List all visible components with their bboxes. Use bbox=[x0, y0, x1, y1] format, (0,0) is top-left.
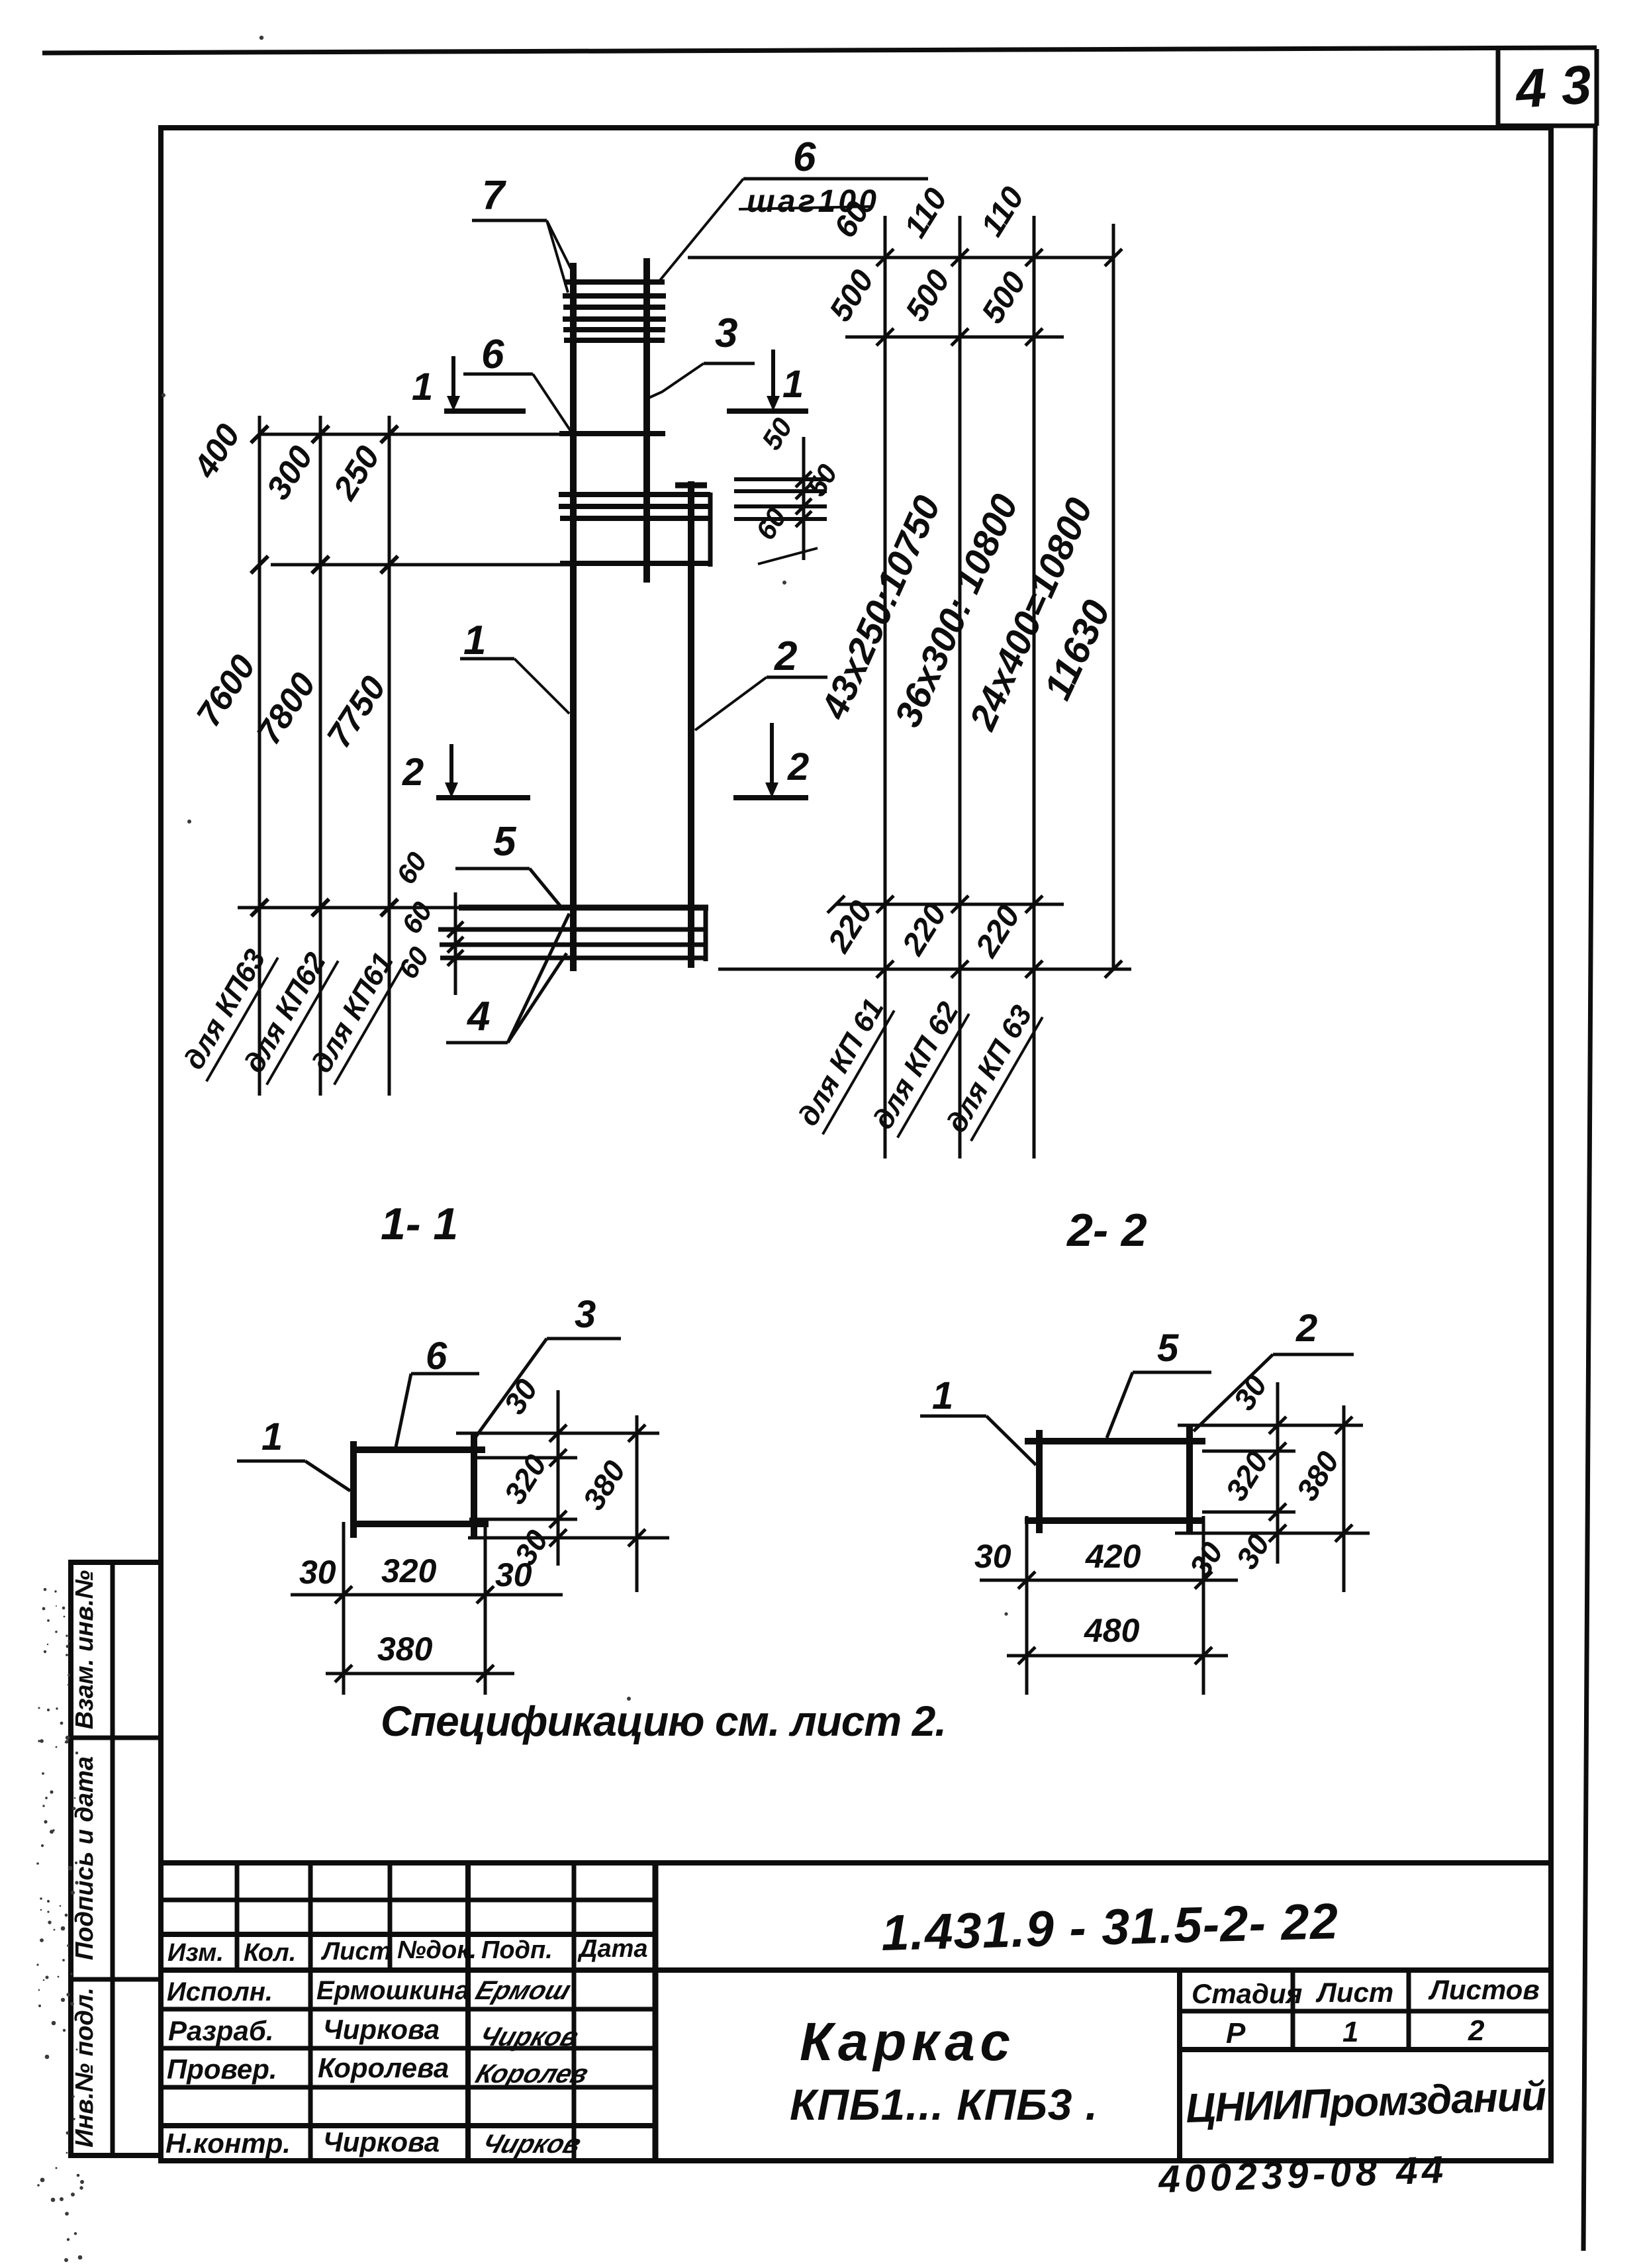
svg-text:Р: Р bbox=[1226, 2017, 1246, 2050]
s11 label 6 leader bbox=[396, 1374, 411, 1447]
label 3 leader bbox=[649, 363, 704, 398]
top stirrup 3 bbox=[563, 305, 665, 310]
label 4 underline bbox=[446, 1041, 508, 1045]
label 4 leader a bbox=[508, 914, 569, 1043]
svg-text:7: 7 bbox=[482, 173, 506, 218]
strip divider 1 bbox=[71, 1736, 161, 1740]
label 5 leader bbox=[530, 869, 560, 906]
s11 left bar bbox=[350, 1441, 357, 1538]
s11 ext right bbox=[484, 1522, 487, 1695]
row line 6 bbox=[161, 2085, 655, 2090]
top stirrup 1 bbox=[564, 279, 665, 285]
ELEVATION DRAWING bbox=[402, 134, 928, 971]
svg-text:Лист: Лист bbox=[1315, 1977, 1393, 2008]
underline dlya kp62 bbox=[267, 961, 338, 1084]
s22 top chord bbox=[1025, 1438, 1205, 1444]
dim vertical a bbox=[258, 416, 261, 1096]
s11 label 1 leader bbox=[305, 1461, 350, 1491]
ticks bottom long bbox=[876, 961, 894, 978]
s22 ticks 420 bbox=[1018, 1572, 1212, 1589]
bar 2 top hook cap bbox=[675, 483, 707, 489]
s22 ext left bbox=[1025, 1516, 1029, 1695]
svg-text:380: 380 bbox=[377, 1630, 433, 1668]
label 6 top underline bbox=[743, 177, 928, 181]
row line 7 bbox=[161, 2123, 655, 2128]
label 2 leader bbox=[695, 677, 767, 730]
s11 dim vertical in bbox=[557, 1390, 560, 1566]
dim vertical c bbox=[388, 416, 391, 1096]
label 7 leader a bbox=[547, 220, 573, 273]
splice bar a bbox=[559, 492, 710, 497]
col data end bbox=[653, 1863, 659, 2161]
splice dim vertical bbox=[802, 437, 806, 560]
splice bar d bbox=[560, 561, 710, 566]
svg-text:Провер.: Провер. bbox=[167, 2054, 277, 2085]
svg-text:4 3: 4 3 bbox=[1513, 54, 1593, 120]
splice free end 1 bbox=[734, 477, 827, 481]
TITLE BLOCK bbox=[161, 1863, 1551, 2201]
svg-text:2: 2 bbox=[774, 634, 797, 679]
svg-text:1: 1 bbox=[412, 365, 433, 408]
row line 5 bbox=[161, 2046, 655, 2051]
s11 label 3 underline bbox=[547, 1337, 621, 1341]
s11 top chord bbox=[351, 1446, 485, 1453]
svg-text:1- 1: 1- 1 bbox=[381, 1199, 458, 1249]
underline dlya kp61 r bbox=[823, 1010, 894, 1134]
svg-text:Королев: Королев bbox=[472, 2059, 592, 2089]
svg-text:2- 2: 2- 2 bbox=[1066, 1204, 1147, 1256]
col podp bbox=[572, 1863, 577, 2161]
bar 2 lower chord bbox=[688, 481, 694, 968]
label 2 underline bbox=[767, 676, 827, 679]
svg-text:№док.: №док. bbox=[397, 1936, 477, 1964]
svg-text:1: 1 bbox=[463, 618, 486, 663]
section mark 1 right line bbox=[727, 408, 808, 414]
svg-text:Спецификацию см. лист 2.: Спецификацию см. лист 2. bbox=[381, 1697, 947, 1745]
s11 label 1 underline bbox=[237, 1460, 305, 1463]
svg-text:320: 320 bbox=[381, 1552, 437, 1589]
s22 dim line 480 bbox=[1007, 1654, 1228, 1658]
s22 dim vertical in bbox=[1276, 1382, 1280, 1564]
s11 bottom chord bbox=[351, 1521, 489, 1527]
top rule bbox=[42, 48, 1597, 53]
svg-text:Подп.: Подп. bbox=[481, 1936, 553, 1964]
svg-text:Инв.№ подл.: Инв.№ подл. bbox=[71, 1987, 99, 2148]
dim vertical r2 bbox=[959, 216, 962, 1158]
underline dlya kp63 r bbox=[971, 1017, 1043, 1141]
underline dlya kp62 r bbox=[898, 1014, 969, 1137]
splice right end stub bbox=[708, 493, 713, 567]
svg-text:3: 3 bbox=[715, 310, 737, 356]
splice free end 4 bbox=[734, 517, 827, 521]
s22 label 5 leader bbox=[1107, 1372, 1133, 1438]
underline dlya kp61 bbox=[334, 961, 406, 1084]
svg-text:420: 420 bbox=[1085, 1538, 1141, 1575]
label 5 underline bbox=[455, 867, 530, 871]
svg-text:30: 30 bbox=[495, 1556, 532, 1593]
s22 ticks 480 bbox=[1018, 1647, 1212, 1664]
dim vertical b bbox=[319, 416, 322, 1096]
bottom hook bar 1 bbox=[459, 905, 708, 911]
s22 bottom chord bbox=[1025, 1517, 1202, 1524]
s11 dim 320b bbox=[469, 1518, 577, 1521]
bottom hook bar 2 bbox=[438, 927, 706, 932]
dim vertical r3 bbox=[1033, 216, 1036, 1158]
col kol bbox=[308, 1863, 313, 2161]
splice free end 2 bbox=[734, 489, 827, 493]
s22 dim line 420 bbox=[980, 1579, 1238, 1582]
stadia col bbox=[1291, 1970, 1295, 2050]
svg-text:30: 30 bbox=[299, 1554, 336, 1591]
svg-text:Кол.: Кол. bbox=[244, 1939, 296, 1967]
row line 3 full width bbox=[161, 1967, 1551, 1973]
svg-text:Изм.: Изм. bbox=[167, 1939, 224, 1967]
s11 dim 30 bbox=[477, 1456, 577, 1460]
dim line mid bbox=[271, 563, 576, 567]
svg-text:Подпись и дата: Подпись и дата bbox=[71, 1756, 99, 1960]
s11 ticks 380 bbox=[335, 1665, 494, 1682]
svg-text:Дата: Дата bbox=[577, 1935, 648, 1963]
svg-text:480: 480 bbox=[1084, 1612, 1140, 1649]
svg-text:Чиркова: Чиркова bbox=[323, 2014, 440, 2045]
col list bbox=[388, 1863, 393, 1970]
svg-text:2: 2 bbox=[1295, 1307, 1317, 1350]
small dim vertical 60s bbox=[454, 892, 457, 995]
outer right border bbox=[1583, 126, 1595, 2251]
splice bar c bbox=[560, 516, 710, 521]
section mark 2 left line bbox=[436, 795, 530, 800]
row line 1 bbox=[161, 1898, 655, 1903]
LEFT DIMENSIONS bbox=[177, 416, 576, 1096]
svg-text:Чирков: Чирков bbox=[476, 2022, 583, 2052]
section mark 1 left line bbox=[444, 408, 526, 414]
svg-text:2: 2 bbox=[787, 745, 809, 788]
s11 dim line 380 bbox=[326, 1672, 514, 1676]
sheet number box 43 bbox=[1496, 50, 1501, 126]
s22 label 1 leader bbox=[986, 1416, 1036, 1465]
top stirrup 5 bbox=[563, 327, 665, 332]
s22 dim 30 bbox=[1202, 1450, 1295, 1453]
s22 label 2 underline bbox=[1273, 1353, 1354, 1356]
svg-text:Исполн.: Исполн. bbox=[167, 1977, 273, 2007]
s22 label 2 leader bbox=[1194, 1354, 1273, 1431]
top stirrup 4 bbox=[563, 316, 666, 322]
row line 4 bbox=[161, 2007, 655, 2012]
shag 100 text underline bbox=[739, 207, 871, 209]
svg-text:5: 5 bbox=[493, 819, 517, 865]
LEFT STRIP bbox=[71, 1562, 161, 2155]
splice free end 3 bbox=[734, 504, 827, 508]
svg-text:КПБ1... КПБ3 .: КПБ1... КПБ3 . bbox=[790, 2080, 1098, 2129]
ticks mid bbox=[251, 556, 268, 573]
col ndok bbox=[465, 1863, 471, 2161]
svg-text:Ермошкина: Ермошкина bbox=[316, 1976, 469, 2005]
ticks top short bbox=[876, 328, 894, 346]
scan speckle noise bbox=[36, 36, 1008, 2262]
SECTION 2-2 bbox=[920, 1204, 1370, 1695]
svg-text:1.431.9 - 31.5-2- 22: 1.431.9 - 31.5-2- 22 bbox=[880, 1893, 1338, 1961]
svg-text:2: 2 bbox=[402, 751, 424, 794]
top stirrup 6 bbox=[564, 338, 665, 343]
svg-text:Чиркова: Чиркова bbox=[323, 2126, 440, 2157]
s11 label 6 underline bbox=[411, 1372, 479, 1376]
dim line top long bbox=[688, 256, 1113, 260]
s11 dim vertical out bbox=[635, 1415, 639, 1592]
label 7 underline bbox=[472, 219, 547, 222]
s22 right bar bbox=[1186, 1425, 1193, 1533]
splice ticks bbox=[796, 471, 812, 527]
svg-text:Ермош: Ермош bbox=[472, 1975, 575, 2005]
label 6 mid leader bbox=[533, 374, 572, 433]
s11 right bar bbox=[471, 1433, 477, 1538]
col izm bbox=[235, 1863, 240, 1970]
dim vertical r4 bbox=[1112, 224, 1115, 969]
svg-text:4: 4 bbox=[466, 994, 490, 1039]
section mark 2 right line bbox=[733, 795, 808, 800]
s22 ext right bbox=[1202, 1516, 1205, 1695]
NOTES bbox=[381, 1697, 947, 1745]
splice label underline bbox=[758, 548, 818, 564]
list col bbox=[1407, 1970, 1411, 2050]
svg-text:Стадия: Стадия bbox=[1192, 1978, 1302, 2009]
RIGHT DIMENSIONS bbox=[688, 181, 1131, 1158]
strip divider 2 bbox=[71, 1977, 161, 1982]
svg-text:Листов: Листов bbox=[1428, 1974, 1540, 2005]
dim vertical r1 bbox=[884, 216, 887, 1158]
section mark 2 left arrow bbox=[449, 744, 453, 784]
bottom hook right stub bbox=[704, 908, 708, 961]
ticks top long bbox=[827, 249, 1122, 978]
svg-text:6: 6 bbox=[481, 332, 504, 377]
dim line top bbox=[259, 433, 570, 436]
svg-text:3: 3 bbox=[575, 1293, 596, 1336]
s22 label 1 underline bbox=[920, 1415, 986, 1418]
s11 ticks 320 bbox=[335, 1586, 494, 1603]
svg-text:1: 1 bbox=[261, 1415, 283, 1458]
s22 dim vertical out bbox=[1342, 1405, 1346, 1592]
section mark 2 right arrow bbox=[770, 723, 774, 784]
stadia value line bbox=[1180, 2047, 1551, 2052]
svg-text:6: 6 bbox=[793, 134, 816, 180]
s22 dim 320b bbox=[1202, 1511, 1295, 1514]
s22 dim bottom bbox=[1175, 1532, 1370, 1535]
s22 ticks bbox=[1269, 1417, 1352, 1542]
strip inner vertical bbox=[111, 1562, 115, 2155]
ticks bottom bbox=[251, 899, 268, 916]
SECTION 1-1 bbox=[237, 1199, 669, 1695]
label 7 leader b bbox=[547, 220, 568, 293]
label 6 mid underline bbox=[463, 373, 533, 376]
svg-text:Лист: Лист bbox=[320, 1938, 391, 1965]
dim line top short bbox=[845, 336, 1064, 339]
ticks top bbox=[251, 426, 398, 916]
s11 dim top bbox=[456, 1432, 659, 1435]
dim line bottom short bbox=[836, 903, 1064, 906]
s11 dim line 320 bbox=[291, 1593, 563, 1597]
dim line bottom long bbox=[718, 968, 1131, 971]
ticks bottom short bbox=[827, 896, 845, 913]
label 1 leader bbox=[514, 659, 569, 714]
svg-text:Разраб.: Разраб. bbox=[168, 2015, 274, 2046]
section mark 1 left arrow bbox=[451, 356, 455, 397]
tie at section 1 level bbox=[559, 431, 665, 436]
svg-text:1: 1 bbox=[1342, 2016, 1358, 2048]
bottom hook bar 4 bbox=[440, 956, 706, 961]
label 4 leader b bbox=[508, 953, 567, 1043]
svg-text:1: 1 bbox=[782, 363, 804, 406]
top stirrup 2 bbox=[563, 293, 666, 299]
divider name cell bbox=[1177, 1970, 1182, 2161]
svg-text:1: 1 bbox=[932, 1374, 953, 1417]
svg-text:30: 30 bbox=[974, 1538, 1011, 1575]
svg-text:Чирков: Чирков bbox=[479, 2129, 585, 2159]
svg-text:Королева: Королева bbox=[318, 2052, 449, 2083]
row line 2 header top bbox=[161, 1932, 655, 1937]
s22 left bar bbox=[1036, 1430, 1043, 1533]
strip outer box bbox=[71, 1562, 161, 2155]
bottom hook bar 3 bbox=[440, 943, 704, 947]
shag 100 leader bbox=[658, 179, 743, 283]
s11 ext left bbox=[342, 1522, 346, 1695]
svg-text:5: 5 bbox=[1157, 1327, 1179, 1370]
splice bar b bbox=[559, 504, 710, 509]
underline dlya kp63 bbox=[207, 957, 278, 1081]
svg-text:Н.контр.: Н.контр. bbox=[165, 2128, 291, 2159]
s11 ticks bbox=[549, 1425, 645, 1546]
svg-text:Взам. инв.№: Взам. инв.№ bbox=[71, 1570, 99, 1729]
svg-text:6: 6 bbox=[426, 1335, 447, 1378]
titleblock top line bbox=[161, 1860, 1551, 1866]
label 3 underline bbox=[704, 362, 755, 365]
dim line bottom bbox=[238, 906, 462, 910]
s11 label 3 leader bbox=[476, 1339, 547, 1437]
s11 dim bottom bbox=[468, 1536, 669, 1540]
bar 3 right upper chord bbox=[643, 258, 650, 583]
svg-text:2: 2 bbox=[1468, 2014, 1485, 2047]
stadia header line bbox=[1180, 2009, 1551, 2014]
s22 label 5 underline bbox=[1133, 1371, 1211, 1374]
ticks 60s bbox=[447, 921, 463, 966]
bar 1 left chord bbox=[570, 263, 577, 971]
s22 dim top bbox=[1178, 1424, 1363, 1427]
section mark 1 right arrow bbox=[771, 350, 775, 397]
label 1 underline bbox=[460, 657, 514, 661]
main frame bbox=[161, 128, 1551, 2161]
